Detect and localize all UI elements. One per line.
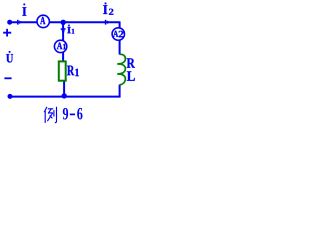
label R1: letter R <box>67 66 74 76</box>
arrow: current I1 direction (points down) <box>61 28 66 33</box>
label I1-dot: dot <box>68 25 70 27</box>
label I1-dot: subscript 1 <box>72 29 75 34</box>
ammeter A1: subscript 1 <box>63 44 66 50</box>
caption: dash of 9-6 <box>70 113 75 115</box>
label U-dot: dot <box>9 51 11 53</box>
plus sign of source port <box>3 29 11 37</box>
arrow: current I direction (points right) <box>17 20 22 25</box>
arrow: current I2 direction (points right) <box>105 20 110 25</box>
label I-dot: letter I <box>22 7 26 16</box>
wire: middle branch vertical (lower) <box>63 70 65 97</box>
inductor coil cusp tick upper <box>117 63 119 65</box>
node: source terminal top-left <box>7 20 12 25</box>
label U-dot: letter U <box>6 54 13 62</box>
label I1-dot: letter I <box>67 27 71 33</box>
caption: digit 6 <box>77 108 82 120</box>
label R of inductor <box>127 58 135 67</box>
node: junction bottom middle <box>61 93 66 98</box>
ammeter A: circle <box>37 15 49 27</box>
ammeter A1: letter A <box>57 43 62 50</box>
ammeter A1: circle <box>54 40 66 52</box>
label I2-dot: dot <box>105 3 107 5</box>
ammeter A: letter A <box>40 17 45 24</box>
caption: digit 9 <box>63 108 68 120</box>
label I-dot: dot <box>23 4 25 6</box>
inductor coil cusp tick lower <box>117 73 119 75</box>
node: junction top middle <box>61 20 66 25</box>
label R1: subscript 1 <box>75 69 79 76</box>
wire: right branch vertical (lower) and bottom bus <box>10 85 120 97</box>
label L of inductor <box>127 71 135 80</box>
label I2-dot: letter I <box>103 5 107 14</box>
inductor coil (R,L series) <box>118 54 125 85</box>
label I2-dot: subscript 2 <box>109 9 113 15</box>
resistor R1: green box <box>59 61 66 80</box>
minus sign of source port <box>4 77 11 79</box>
wire: right branch vertical (upper) <box>119 21 121 54</box>
ammeter A2: letter A <box>113 31 118 37</box>
wire: middle branch vertical (upper) <box>62 21 64 70</box>
ammeter A2: circle <box>112 28 124 40</box>
wire: top horizontal bus <box>10 21 120 23</box>
caption: character LI (example) drawn strokes <box>44 107 56 123</box>
node: source terminal bottom-left <box>8 94 13 99</box>
ammeter A2: subscript 2 <box>119 31 124 37</box>
